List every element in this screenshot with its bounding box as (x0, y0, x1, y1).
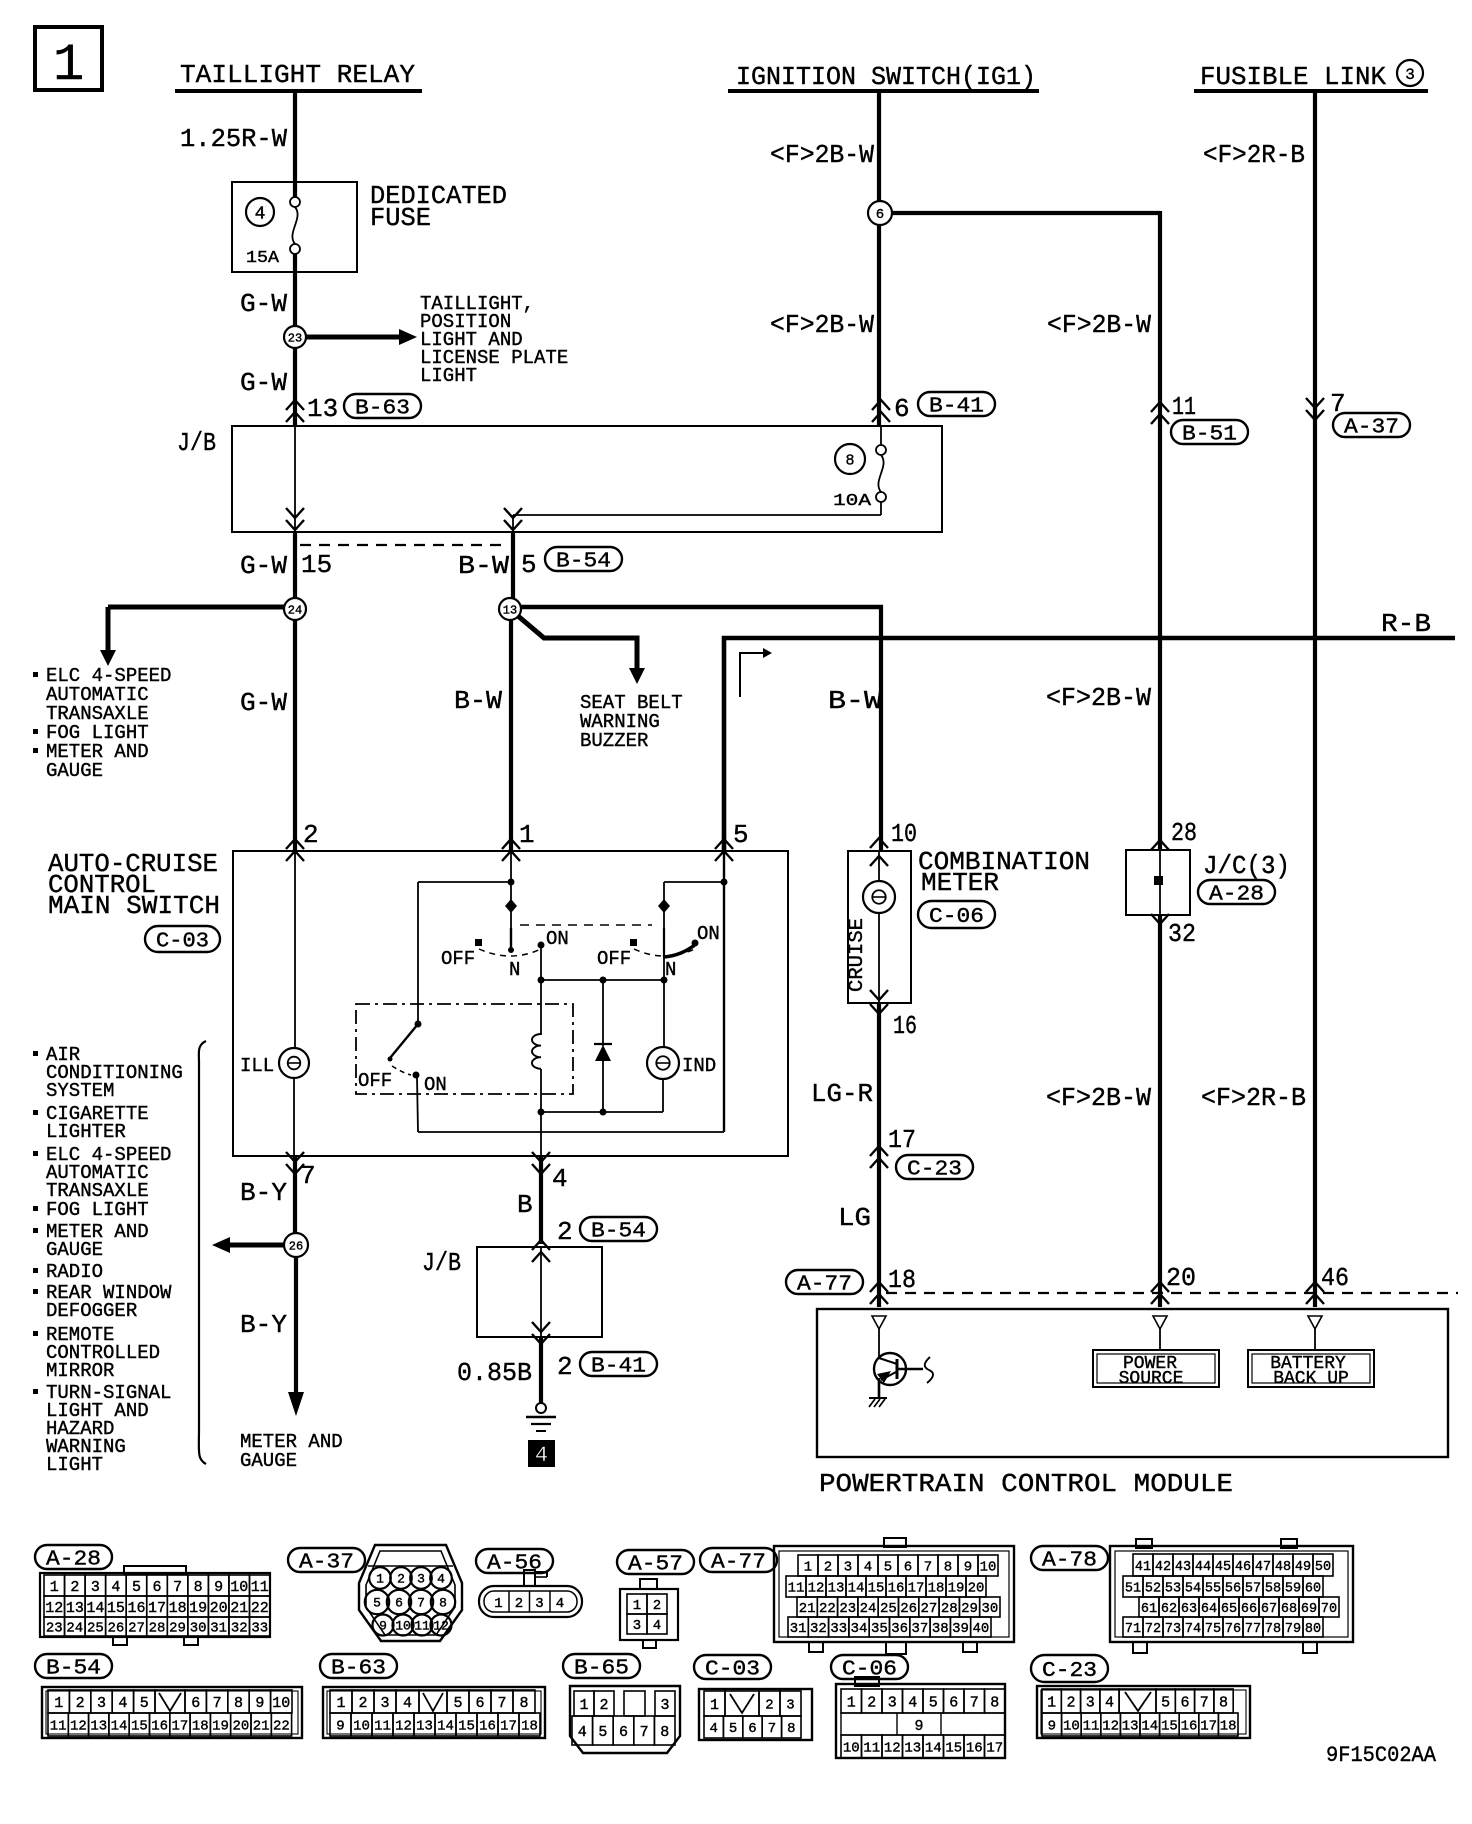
svg-text:28: 28 (149, 1621, 166, 1637)
svg-text:8: 8 (234, 1695, 243, 1712)
svg-text:C-03: C-03 (705, 1659, 760, 1682)
svg-text:A-37: A-37 (1344, 417, 1399, 440)
svg-text:77: 77 (1245, 1622, 1261, 1637)
svg-text:1: 1 (519, 820, 535, 850)
svg-text:33: 33 (830, 1621, 847, 1637)
svg-text:16: 16 (1181, 1719, 1198, 1735)
svg-text:4: 4 (556, 1596, 564, 1612)
svg-text:24: 24 (860, 1601, 877, 1617)
svg-text:3: 3 (1086, 1694, 1095, 1711)
svg-text:8: 8 (990, 1694, 999, 1711)
svg-text:<F>2B-W: <F>2B-W (1046, 1083, 1151, 1113)
svg-text:8: 8 (660, 1724, 669, 1741)
svg-text:B-W: B-W (458, 551, 509, 581)
svg-text:20: 20 (1166, 1263, 1196, 1293)
svg-text:GAUGE: GAUGE (46, 1239, 103, 1261)
svg-text:4: 4 (908, 1694, 917, 1711)
svg-text:12: 12 (433, 1619, 449, 1634)
svg-text:<F>2B-W: <F>2B-W (770, 140, 874, 170)
svg-text:10: 10 (980, 1560, 997, 1576)
svg-text:LG: LG (838, 1203, 871, 1233)
svg-text:2: 2 (653, 1598, 661, 1614)
svg-text:7: 7 (924, 1560, 932, 1576)
svg-text:12: 12 (1102, 1719, 1119, 1735)
svg-text:ILL: ILL (240, 1055, 274, 1077)
svg-text:J/B: J/B (422, 1248, 461, 1278)
svg-text:12: 12 (884, 1741, 901, 1757)
svg-text:15: 15 (458, 1719, 475, 1735)
svg-text:14: 14 (86, 1600, 104, 1617)
svg-text:67: 67 (1261, 1602, 1277, 1617)
svg-text:15: 15 (1161, 1719, 1178, 1735)
svg-text:3: 3 (786, 1698, 794, 1714)
svg-text:45: 45 (1215, 1560, 1231, 1575)
svg-text:20: 20 (210, 1600, 228, 1617)
svg-text:18: 18 (192, 1719, 209, 1735)
svg-text:14: 14 (1141, 1719, 1158, 1735)
svg-text:3: 3 (844, 1560, 852, 1576)
svg-text:6: 6 (153, 1579, 162, 1596)
svg-text:7: 7 (300, 1161, 316, 1191)
svg-text:5: 5 (140, 1695, 149, 1712)
svg-text:72: 72 (1145, 1622, 1161, 1637)
svg-text:B-54: B-54 (46, 1658, 101, 1681)
svg-text:2: 2 (1066, 1694, 1075, 1711)
svg-text:15: 15 (131, 1719, 148, 1735)
svg-text:41: 41 (1135, 1560, 1151, 1575)
svg-text:39: 39 (952, 1621, 969, 1637)
svg-text:8: 8 (519, 1695, 528, 1712)
svg-text:27: 27 (921, 1601, 938, 1617)
svg-text:1: 1 (804, 1560, 812, 1576)
svg-text:76: 76 (1225, 1622, 1241, 1637)
svg-text:B-65: B-65 (574, 1658, 629, 1681)
svg-text:LIGHT: LIGHT (46, 1454, 103, 1476)
svg-text:57: 57 (1245, 1581, 1261, 1596)
svg-text:N: N (509, 959, 520, 981)
svg-text:22: 22 (273, 1719, 290, 1735)
svg-text:1: 1 (376, 1572, 384, 1587)
svg-text:A-77: A-77 (711, 1552, 766, 1575)
svg-text:4: 4 (255, 204, 266, 224)
svg-text:2: 2 (76, 1695, 85, 1712)
svg-text:C-06: C-06 (842, 1659, 897, 1682)
svg-text:13: 13 (904, 1741, 921, 1757)
svg-text:14: 14 (848, 1581, 865, 1597)
svg-text:73: 73 (1165, 1622, 1181, 1637)
svg-text:4: 4 (578, 1724, 587, 1741)
svg-text:11: 11 (1083, 1719, 1100, 1735)
svg-text:9: 9 (255, 1695, 264, 1712)
svg-text:7: 7 (640, 1724, 649, 1741)
svg-text:IND: IND (682, 1055, 716, 1077)
svg-text:14: 14 (437, 1719, 454, 1735)
svg-text:7: 7 (213, 1695, 222, 1712)
svg-text:B-41: B-41 (929, 396, 984, 419)
svg-text:B: B (517, 1190, 533, 1220)
svg-text:2: 2 (867, 1694, 876, 1711)
svg-text:61: 61 (1141, 1602, 1157, 1617)
svg-text:21: 21 (799, 1601, 816, 1617)
svg-text:4: 4 (653, 1618, 661, 1634)
svg-text:N: N (665, 959, 676, 981)
svg-text:2: 2 (70, 1579, 79, 1596)
svg-text:29: 29 (169, 1621, 186, 1637)
svg-text:LG-R: LG-R (811, 1079, 873, 1109)
svg-text:G-W: G-W (240, 551, 287, 581)
svg-text:50: 50 (1315, 1560, 1331, 1575)
svg-text:B-41: B-41 (591, 1356, 646, 1379)
svg-text:8: 8 (944, 1560, 952, 1576)
svg-text:10: 10 (272, 1695, 290, 1712)
svg-text:23: 23 (839, 1601, 856, 1617)
svg-text:17: 17 (172, 1719, 189, 1735)
svg-text:62: 62 (1161, 1602, 1177, 1617)
svg-text:10: 10 (353, 1719, 370, 1735)
svg-text:16: 16 (479, 1719, 496, 1735)
svg-text:<F>2B-W: <F>2B-W (1046, 683, 1151, 713)
svg-text:SOURCE: SOURCE (1119, 1369, 1184, 1389)
svg-text:A-78: A-78 (1042, 1550, 1097, 1573)
svg-text:46: 46 (1321, 1263, 1349, 1293)
svg-text:GAUGE: GAUGE (46, 760, 103, 782)
svg-text:C-06: C-06 (929, 906, 984, 929)
svg-text:OFF: OFF (441, 948, 475, 970)
svg-text:6: 6 (475, 1695, 484, 1712)
svg-text:17: 17 (1200, 1719, 1217, 1735)
svg-text:<F>2R-B: <F>2R-B (1201, 1083, 1306, 1113)
svg-text:B-63: B-63 (331, 1658, 386, 1681)
svg-text:6: 6 (748, 1721, 756, 1737)
svg-text:LIGHT: LIGHT (420, 365, 477, 387)
svg-text:9: 9 (336, 1719, 344, 1735)
svg-text:5: 5 (1161, 1694, 1170, 1711)
svg-text:5: 5 (521, 550, 537, 580)
svg-text:B-54: B-54 (556, 551, 611, 574)
svg-text:7: 7 (173, 1579, 182, 1596)
svg-text:10: 10 (891, 819, 917, 849)
svg-text:3: 3 (97, 1695, 106, 1712)
svg-text:3: 3 (633, 1618, 641, 1634)
svg-text:RADIO: RADIO (46, 1261, 103, 1283)
svg-text:10: 10 (230, 1579, 248, 1596)
svg-text:68: 68 (1281, 1602, 1297, 1617)
svg-text:11: 11 (50, 1719, 67, 1735)
svg-text:20: 20 (968, 1581, 985, 1597)
svg-text:6: 6 (949, 1694, 958, 1711)
svg-text:A-77: A-77 (797, 1274, 852, 1297)
svg-text:1: 1 (336, 1695, 345, 1712)
svg-text:R-B: R-B (1381, 609, 1431, 639)
svg-text:15: 15 (868, 1581, 885, 1597)
svg-text:65: 65 (1221, 1602, 1237, 1617)
svg-text:ON: ON (424, 1074, 447, 1096)
svg-text:34: 34 (851, 1621, 868, 1637)
svg-text:2: 2 (557, 1217, 573, 1247)
svg-text:30: 30 (190, 1621, 207, 1637)
svg-text:1: 1 (579, 1697, 588, 1714)
svg-text:12: 12 (395, 1719, 412, 1735)
svg-text:B-W: B-W (454, 686, 502, 716)
svg-text:B-Y: B-Y (240, 1178, 287, 1208)
svg-text:12: 12 (70, 1719, 87, 1735)
svg-text:7: 7 (1200, 1694, 1209, 1711)
svg-text:C-23: C-23 (907, 1159, 962, 1182)
svg-text:CRUISE: CRUISE (846, 918, 869, 992)
svg-text:8: 8 (1219, 1694, 1228, 1711)
svg-text:16: 16 (966, 1741, 983, 1757)
svg-text:13: 13 (66, 1600, 84, 1617)
svg-text:BACK UP: BACK UP (1273, 1369, 1349, 1389)
svg-text:49: 49 (1295, 1560, 1311, 1575)
svg-text:11: 11 (863, 1741, 880, 1757)
svg-text:47: 47 (1255, 1560, 1271, 1575)
svg-text:8: 8 (439, 1596, 447, 1611)
svg-text:5: 5 (373, 1596, 381, 1611)
svg-text:<F>2R-B: <F>2R-B (1203, 140, 1305, 170)
svg-text:9: 9 (379, 1619, 387, 1634)
svg-text:1: 1 (494, 1596, 502, 1612)
svg-text:3: 3 (1405, 66, 1415, 84)
svg-text:29: 29 (961, 1601, 978, 1617)
svg-text:55: 55 (1205, 1581, 1221, 1596)
svg-text:16: 16 (127, 1600, 145, 1617)
svg-text:13: 13 (307, 394, 338, 424)
svg-text:LIGHTER: LIGHTER (46, 1121, 126, 1143)
svg-text:52: 52 (1145, 1581, 1161, 1596)
svg-text:FUSE: FUSE (370, 203, 431, 233)
svg-text:37: 37 (912, 1621, 929, 1637)
svg-text:13: 13 (828, 1581, 845, 1597)
svg-text:9F15C02AA: 9F15C02AA (1326, 1743, 1437, 1768)
svg-text:13: 13 (90, 1719, 107, 1735)
svg-text:63: 63 (1181, 1602, 1197, 1617)
svg-text:ON: ON (697, 923, 720, 945)
svg-text:4: 4 (552, 1164, 568, 1194)
svg-text:6: 6 (191, 1695, 200, 1712)
svg-text:54: 54 (1185, 1581, 1201, 1596)
svg-text:25: 25 (880, 1601, 897, 1617)
svg-text:12: 12 (808, 1581, 825, 1597)
svg-text:5: 5 (453, 1695, 462, 1712)
svg-text:FOG LIGHT: FOG LIGHT (46, 1199, 149, 1221)
svg-text:11: 11 (788, 1581, 805, 1597)
svg-text:6: 6 (1180, 1694, 1189, 1711)
svg-text:19: 19 (189, 1600, 207, 1617)
svg-text:A-28: A-28 (1209, 884, 1264, 907)
svg-text:METER: METER (921, 868, 999, 898)
svg-text:10A: 10A (833, 492, 872, 511)
svg-text:1: 1 (50, 1579, 59, 1596)
svg-text:11: 11 (374, 1719, 391, 1735)
svg-text:17: 17 (888, 1125, 916, 1155)
svg-text:18: 18 (888, 1265, 916, 1295)
svg-text:24: 24 (66, 1621, 83, 1637)
svg-text:B-W: B-W (828, 686, 882, 716)
svg-text:48: 48 (1275, 1560, 1291, 1575)
svg-text:74: 74 (1185, 1622, 1201, 1637)
svg-text:17: 17 (148, 1600, 166, 1617)
svg-text:36: 36 (891, 1621, 908, 1637)
svg-text:64: 64 (1201, 1602, 1217, 1617)
svg-text:7: 7 (970, 1694, 979, 1711)
svg-text:<F>2B-W: <F>2B-W (770, 310, 874, 340)
svg-text:58: 58 (1265, 1581, 1281, 1596)
svg-text:21: 21 (253, 1719, 270, 1735)
svg-text:G-W: G-W (240, 688, 287, 718)
svg-text:2: 2 (765, 1698, 773, 1714)
svg-text:4: 4 (437, 1572, 445, 1587)
svg-text:13: 13 (416, 1719, 433, 1735)
svg-text:23: 23 (46, 1621, 63, 1637)
svg-text:27: 27 (128, 1621, 145, 1637)
svg-text:A-37: A-37 (299, 1552, 354, 1575)
svg-text:19: 19 (948, 1581, 965, 1597)
svg-text:59: 59 (1285, 1581, 1301, 1596)
svg-text:1: 1 (710, 1697, 719, 1714)
svg-text:32: 32 (231, 1621, 248, 1637)
svg-text:28: 28 (941, 1601, 958, 1617)
svg-text:35: 35 (871, 1621, 888, 1637)
svg-text:16: 16 (888, 1581, 905, 1597)
svg-text:B-Y: B-Y (240, 1310, 287, 1340)
svg-text:10: 10 (395, 1619, 411, 1634)
svg-text:11: 11 (1172, 392, 1196, 422)
svg-text:19: 19 (212, 1719, 229, 1735)
svg-text:24: 24 (288, 603, 302, 617)
svg-text:G-W: G-W (240, 368, 287, 398)
svg-text:4: 4 (403, 1695, 412, 1712)
svg-text:33: 33 (251, 1621, 268, 1637)
svg-text:9: 9 (214, 1579, 223, 1596)
svg-text:12: 12 (45, 1600, 63, 1617)
svg-text:28: 28 (1171, 818, 1197, 848)
svg-text:2: 2 (515, 1596, 523, 1612)
svg-text:10: 10 (1063, 1719, 1080, 1735)
svg-text:10: 10 (843, 1741, 860, 1757)
svg-text:3: 3 (91, 1579, 100, 1596)
svg-text:1: 1 (633, 1598, 641, 1614)
svg-text:B-63: B-63 (355, 398, 410, 421)
svg-text:3: 3 (417, 1572, 425, 1587)
svg-text:OFF: OFF (358, 1070, 392, 1092)
svg-text:A-28: A-28 (46, 1549, 101, 1572)
svg-text:13: 13 (503, 603, 517, 617)
svg-text:22: 22 (251, 1600, 269, 1617)
svg-text:MAIN SWITCH: MAIN SWITCH (48, 891, 220, 921)
svg-text:1: 1 (54, 1695, 63, 1712)
svg-text:56: 56 (1225, 1581, 1241, 1596)
svg-text:11: 11 (414, 1619, 430, 1634)
svg-text:43: 43 (1175, 1560, 1191, 1575)
svg-text:6: 6 (395, 1596, 403, 1611)
svg-text:44: 44 (1195, 1560, 1211, 1575)
svg-text:31: 31 (790, 1621, 807, 1637)
svg-text:18: 18 (1220, 1719, 1237, 1735)
svg-text:9: 9 (914, 1718, 923, 1735)
svg-text:15: 15 (107, 1600, 125, 1617)
svg-text:42: 42 (1155, 1560, 1171, 1575)
svg-text:16: 16 (893, 1011, 917, 1041)
svg-text:16: 16 (151, 1719, 168, 1735)
svg-text:51: 51 (1125, 1581, 1141, 1596)
svg-text:2: 2 (557, 1352, 573, 1382)
svg-text:17: 17 (986, 1741, 1003, 1757)
svg-text:IGNITION SWITCH(IG1): IGNITION SWITCH(IG1) (736, 62, 1036, 92)
svg-text:TAILLIGHT RELAY: TAILLIGHT RELAY (180, 60, 415, 90)
svg-text:SYSTEM: SYSTEM (46, 1080, 114, 1102)
svg-text:6: 6 (619, 1724, 628, 1741)
svg-text:4: 4 (535, 1443, 548, 1468)
svg-text:40: 40 (972, 1621, 989, 1637)
svg-text:13: 13 (1122, 1719, 1139, 1735)
svg-text:5: 5 (729, 1721, 737, 1737)
svg-text:7: 7 (497, 1695, 506, 1712)
svg-text:3: 3 (380, 1695, 389, 1712)
svg-text:5: 5 (598, 1724, 607, 1741)
svg-text:30: 30 (981, 1601, 998, 1617)
svg-text:9: 9 (1048, 1719, 1056, 1735)
svg-text:66: 66 (1241, 1602, 1257, 1617)
svg-text:32: 32 (810, 1621, 827, 1637)
svg-text:G-W: G-W (240, 289, 287, 319)
svg-text:14: 14 (925, 1741, 942, 1757)
svg-text:23: 23 (288, 331, 302, 345)
svg-text:0.85B: 0.85B (457, 1358, 532, 1388)
svg-text:FUSIBLE LINK: FUSIBLE LINK (1200, 62, 1386, 92)
svg-text:J/B: J/B (177, 428, 216, 458)
svg-text:79: 79 (1285, 1622, 1301, 1637)
svg-text:71: 71 (1125, 1622, 1141, 1637)
svg-text:BUZZER: BUZZER (580, 730, 648, 752)
svg-text:6: 6 (894, 394, 910, 424)
svg-text:7: 7 (768, 1721, 776, 1737)
svg-text:26: 26 (900, 1601, 917, 1617)
svg-text:2: 2 (599, 1697, 608, 1714)
svg-text:7: 7 (417, 1596, 425, 1611)
svg-text:53: 53 (1165, 1581, 1181, 1596)
svg-text:J/C(3): J/C(3) (1203, 851, 1290, 881)
svg-text:78: 78 (1265, 1622, 1281, 1637)
svg-text:5: 5 (884, 1560, 892, 1576)
svg-text:5: 5 (929, 1694, 938, 1711)
svg-text:70: 70 (1321, 1602, 1337, 1617)
svg-text:4: 4 (1105, 1694, 1114, 1711)
svg-text:C-23: C-23 (1042, 1660, 1097, 1683)
svg-text:5: 5 (132, 1579, 141, 1596)
svg-text:2: 2 (824, 1560, 832, 1576)
svg-text:38: 38 (932, 1621, 949, 1637)
svg-text:3: 3 (535, 1596, 543, 1612)
svg-text:3: 3 (888, 1694, 897, 1711)
svg-text:8: 8 (845, 452, 854, 469)
svg-text:11: 11 (251, 1579, 269, 1596)
svg-text:15: 15 (301, 550, 332, 580)
svg-text:4: 4 (709, 1721, 717, 1737)
svg-text:80: 80 (1305, 1622, 1321, 1637)
svg-text:1: 1 (847, 1694, 856, 1711)
svg-text:17: 17 (908, 1581, 925, 1597)
svg-text:<F>2B-W: <F>2B-W (1047, 310, 1151, 340)
svg-text:46: 46 (1235, 1560, 1251, 1575)
svg-text:22: 22 (819, 1601, 836, 1617)
svg-text:4: 4 (864, 1560, 872, 1576)
svg-text:DEFOGGER: DEFOGGER (46, 1300, 137, 1322)
svg-text:1.25R-W: 1.25R-W (180, 124, 287, 154)
svg-text:17: 17 (500, 1719, 517, 1735)
svg-text:8: 8 (787, 1721, 795, 1737)
svg-text:18: 18 (521, 1719, 538, 1735)
